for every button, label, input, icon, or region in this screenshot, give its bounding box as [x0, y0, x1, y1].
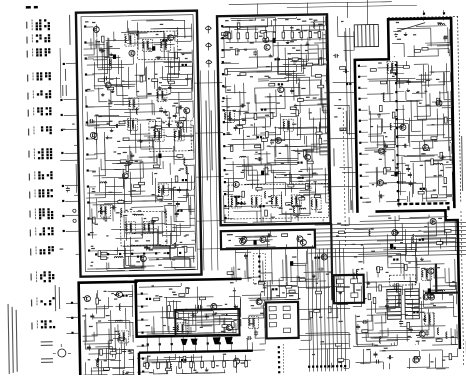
terminal pad — [396, 145, 398, 147]
wire — [247, 169, 257, 171]
wire — [267, 161, 298, 164]
wire — [419, 142, 421, 161]
transistor T33 — [413, 357, 419, 363]
wire — [86, 106, 112, 108]
wire — [309, 183, 327, 185]
wire — [87, 138, 95, 140]
wire — [393, 31, 401, 33]
wire — [201, 325, 212, 327]
wire — [191, 119, 193, 121]
resistor R102 — [379, 285, 382, 291]
wire — [414, 63, 428, 65]
value label — [149, 372, 153, 373]
wire — [290, 213, 292, 222]
electrolytic capacitor CE9 — [428, 288, 431, 293]
value label — [298, 171, 302, 172]
transformer TR12 — [144, 221, 154, 233]
ground — [102, 93, 104, 95]
wire — [354, 228, 369, 230]
wire — [405, 314, 419, 316]
capacitor C47 — [404, 144, 406, 148]
value label — [92, 171, 96, 172]
value label — [62, 129, 66, 130]
wire — [186, 189, 188, 201]
capacitor C37 — [290, 89, 294, 91]
wire — [210, 360, 229, 362]
wire — [151, 100, 153, 115]
wire — [122, 169, 124, 186]
resistor R105 — [404, 264, 407, 270]
wire — [361, 175, 369, 177]
wire — [169, 163, 171, 175]
wire — [223, 320, 225, 334]
wire — [194, 233, 196, 242]
wire — [189, 210, 194, 212]
terminal pad — [62, 200, 64, 202]
wire — [60, 159, 77, 161]
value label — [194, 309, 197, 310]
wire — [117, 162, 141, 164]
wire — [224, 318, 226, 333]
wire — [386, 64, 389, 93]
value label — [416, 341, 420, 342]
wire — [239, 324, 241, 326]
resistor R31 — [290, 107, 296, 110]
wire — [188, 193, 190, 212]
value label — [292, 124, 296, 125]
wire — [222, 105, 245, 107]
transistor T2 — [184, 108, 190, 114]
wire — [421, 183, 423, 201]
wire — [188, 313, 190, 334]
wire — [297, 133, 327, 136]
wire — [451, 344, 457, 346]
wire — [332, 248, 334, 371]
wire — [411, 299, 413, 319]
resistor R121 — [166, 368, 172, 371]
wire — [131, 206, 163, 209]
wire — [430, 28, 432, 46]
value label — [339, 99, 342, 100]
wire — [421, 48, 449, 50]
wire — [134, 124, 137, 153]
inductor L12 — [186, 165, 188, 174]
transformer TR7 — [142, 39, 152, 51]
wire — [387, 258, 389, 268]
wire — [381, 316, 383, 338]
value label — [182, 54, 185, 55]
ground — [127, 159, 129, 161]
wire — [179, 223, 181, 235]
wire — [158, 87, 192, 90]
wire — [63, 98, 77, 100]
value label — [153, 221, 156, 222]
ground — [424, 317, 426, 319]
wire — [394, 129, 396, 148]
terminal pad — [179, 252, 181, 254]
wire — [423, 290, 441, 292]
wire — [180, 100, 192, 102]
wire — [175, 206, 177, 222]
wire — [450, 91, 452, 106]
transistor T16 — [275, 137, 281, 143]
wire — [357, 345, 383, 347]
wire — [129, 269, 144, 271]
value label — [384, 348, 388, 349]
transistor T23 — [377, 180, 383, 186]
value label — [419, 103, 422, 104]
wire — [139, 285, 181, 288]
wire — [254, 153, 270, 155]
wire — [352, 269, 354, 292]
wire — [435, 221, 437, 237]
resistor R21 — [175, 176, 178, 182]
wire — [306, 64, 325, 66]
wire — [181, 134, 193, 136]
inductor L70 — [379, 337, 381, 344]
wire — [443, 137, 451, 139]
wire — [94, 153, 105, 155]
wire — [426, 190, 436, 192]
wire — [108, 38, 110, 57]
transformer TR13 — [224, 110, 234, 122]
wire — [359, 87, 367, 89]
wire — [129, 265, 144, 267]
value label — [110, 101, 113, 102]
wire — [388, 306, 398, 308]
wire — [369, 25, 371, 47]
value label — [307, 234, 311, 235]
wire — [326, 117, 328, 134]
wire — [188, 149, 193, 151]
value label — [385, 136, 387, 137]
wire — [153, 141, 155, 164]
value label — [266, 202, 268, 203]
wire — [287, 5, 417, 7]
wire — [290, 145, 307, 147]
wire — [95, 193, 141, 196]
value label — [400, 242, 403, 243]
wire — [421, 349, 442, 351]
value label — [138, 210, 141, 211]
wire — [415, 238, 417, 252]
wire — [258, 66, 289, 69]
value label — [313, 97, 317, 98]
value label — [426, 80, 430, 81]
wire — [218, 332, 220, 333]
wire — [370, 280, 414, 283]
value label — [135, 240, 139, 241]
wire — [314, 42, 325, 44]
wire — [269, 98, 271, 127]
wire — [118, 146, 153, 149]
capacitor C36 — [298, 177, 300, 179]
wire — [274, 44, 319, 47]
wire — [450, 160, 452, 162]
wire — [186, 61, 192, 63]
wire — [315, 226, 466, 229]
wire — [396, 334, 398, 345]
resistor R92 — [383, 168, 386, 174]
wire — [269, 93, 272, 125]
value label — [381, 93, 384, 94]
value label — [180, 242, 183, 243]
wire — [256, 170, 258, 191]
value label — [416, 335, 420, 336]
value label — [273, 19, 277, 20]
value label — [309, 19, 313, 20]
wire — [324, 174, 327, 203]
wire — [149, 258, 191, 261]
wire — [310, 25, 325, 27]
wire — [191, 359, 193, 373]
wire — [324, 168, 326, 182]
wire — [360, 131, 368, 133]
wire — [164, 199, 172, 201]
terminal pad — [224, 217, 226, 219]
capacitor C22 — [89, 119, 91, 123]
wire — [260, 187, 308, 190]
value label — [288, 204, 291, 205]
value label — [281, 163, 284, 164]
value label — [379, 152, 382, 153]
value label — [60, 248, 64, 249]
wire — [124, 250, 126, 269]
wire — [416, 100, 418, 119]
wire — [311, 21, 325, 23]
terminal pad — [61, 129, 63, 131]
resistor R89 — [380, 105, 383, 111]
wire — [398, 280, 415, 282]
value label — [242, 120, 246, 121]
inner de-emphasis box — [175, 309, 239, 336]
terminal pad — [224, 205, 226, 207]
wire — [437, 49, 439, 56]
inductor L60 — [396, 284, 398, 293]
wire — [446, 282, 457, 284]
wire — [394, 296, 396, 309]
wire — [252, 134, 281, 136]
wire — [325, 132, 327, 134]
wire — [178, 92, 180, 117]
wire — [443, 221, 445, 234]
wire — [84, 48, 96, 50]
wire — [173, 224, 175, 231]
wire — [428, 215, 430, 218]
wire — [113, 178, 116, 211]
value label — [277, 102, 280, 103]
wire — [222, 48, 257, 51]
capacitor C55 — [344, 69, 346, 73]
transistor T3 — [177, 122, 183, 128]
wire — [321, 143, 327, 145]
value label — [168, 117, 172, 118]
capacitor C29 — [264, 166, 266, 170]
wire — [193, 134, 195, 159]
wire — [425, 42, 449, 44]
wire — [152, 138, 154, 148]
wire — [350, 189, 352, 210]
wire — [171, 261, 173, 268]
wire — [132, 232, 163, 235]
wire — [326, 73, 328, 99]
transistor T10 — [264, 44, 270, 50]
wire — [398, 162, 406, 164]
wire — [95, 128, 98, 159]
wire — [223, 86, 231, 88]
value label — [72, 123, 74, 124]
wire — [340, 248, 342, 371]
wire — [319, 108, 321, 127]
wire — [297, 148, 299, 160]
wire — [247, 179, 259, 181]
resistor R49 — [221, 33, 227, 36]
wire — [89, 250, 97, 252]
wire — [311, 143, 327, 145]
wire — [396, 62, 398, 83]
wire — [333, 81, 355, 83]
wire — [255, 27, 257, 42]
value label — [387, 309, 391, 310]
capacitor C65 — [399, 321, 403, 323]
resistor R91 — [431, 159, 434, 165]
ground — [405, 32, 407, 34]
wire — [433, 285, 457, 287]
resistor R118 — [154, 298, 160, 301]
value label — [255, 158, 258, 159]
wire — [192, 354, 194, 363]
wire — [322, 106, 327, 108]
wire — [208, 70, 211, 270]
value label — [388, 256, 392, 257]
wire — [427, 222, 429, 247]
wire — [360, 109, 368, 111]
capacitor C61 — [409, 328, 413, 330]
wire — [224, 177, 244, 179]
wire — [191, 124, 193, 126]
wire — [412, 254, 429, 256]
wire — [254, 86, 300, 89]
wire — [324, 112, 327, 114]
value label — [140, 75, 144, 76]
wire — [98, 200, 147, 203]
wire — [429, 93, 431, 116]
wire — [112, 205, 114, 222]
wire — [165, 297, 167, 319]
wire — [376, 312, 387, 314]
wire — [224, 214, 226, 223]
wire — [277, 187, 313, 190]
wire — [360, 362, 370, 364]
resistor R104 — [377, 267, 380, 273]
copyright text — [8, 304, 10, 374]
wire — [151, 326, 153, 334]
wire — [139, 36, 175, 39]
capacitor C43 — [257, 136, 259, 138]
wire — [320, 248, 322, 371]
value label — [223, 354, 226, 355]
wire — [422, 65, 424, 82]
wire — [315, 222, 466, 225]
terminal pad — [88, 249, 90, 251]
wire — [245, 166, 247, 180]
wire — [167, 73, 169, 82]
wire — [401, 156, 403, 184]
tuner module box — [76, 11, 202, 277]
value label — [129, 98, 131, 99]
value label — [233, 110, 236, 111]
wire — [166, 360, 168, 375]
terminal pad — [359, 131, 361, 133]
inductor L11 — [184, 158, 186, 165]
terminal pad — [61, 114, 63, 116]
value label — [436, 267, 440, 268]
wire — [167, 300, 181, 302]
value label — [147, 356, 151, 357]
ground — [110, 53, 112, 55]
wire — [230, 195, 241, 197]
wire — [223, 34, 225, 58]
wire — [225, 67, 257, 70]
wire — [107, 37, 109, 56]
capacitor C57 — [334, 54, 336, 58]
wire — [225, 25, 323, 27]
terminal pad — [358, 98, 360, 100]
capacitor C3 — [125, 164, 127, 168]
wire — [299, 118, 301, 139]
wire — [120, 60, 122, 87]
wire — [123, 240, 125, 256]
wire — [235, 249, 238, 282]
value label — [200, 327, 203, 328]
wire — [428, 353, 430, 367]
wire — [344, 32, 347, 62]
capacitor C18 — [167, 123, 169, 127]
wire — [205, 312, 241, 315]
wire — [78, 244, 80, 253]
value label — [116, 212, 120, 213]
transistor T24 — [436, 100, 442, 106]
wire — [238, 125, 240, 135]
wire — [297, 204, 299, 221]
wire — [430, 289, 456, 291]
wire — [326, 125, 328, 150]
wire — [365, 171, 400, 174]
wire — [376, 345, 391, 347]
terminal pad — [63, 230, 65, 232]
wire — [142, 200, 163, 202]
wire — [108, 263, 110, 269]
wire — [359, 65, 367, 67]
wire — [441, 350, 443, 367]
ground — [169, 85, 171, 87]
wire — [169, 233, 171, 261]
wire — [135, 74, 145, 76]
wire — [230, 17, 275, 20]
wire — [369, 111, 372, 142]
value label — [357, 269, 360, 270]
wire — [296, 17, 298, 18]
wire — [450, 119, 452, 141]
wire — [102, 176, 128, 178]
resistor R4 — [179, 118, 185, 121]
wire — [317, 45, 319, 64]
resistor R95 — [414, 50, 420, 53]
wire — [368, 135, 384, 137]
value label — [433, 305, 436, 306]
wire — [236, 363, 238, 373]
wire — [454, 259, 457, 288]
